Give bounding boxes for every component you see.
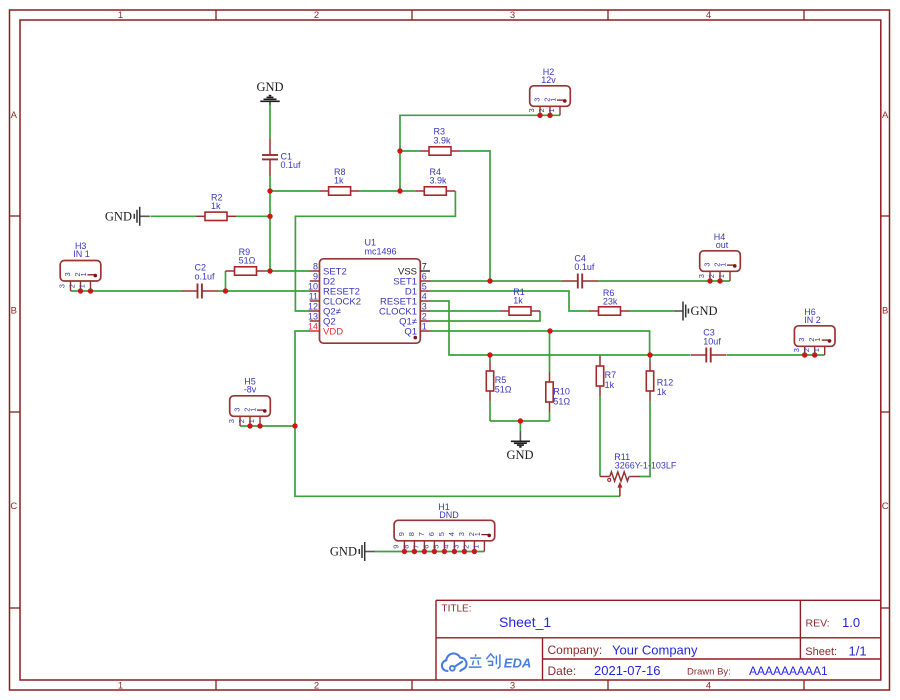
svg-text:REV:: REV:	[806, 617, 830, 629]
node H5p1	[257, 423, 262, 428]
wire	[236, 215, 270, 217]
svg-text:51Ω: 51Ω	[495, 385, 512, 395]
ground	[105, 207, 150, 226]
ground (earth, top)	[260, 96, 279, 105]
svg-text:C: C	[10, 501, 17, 512]
svg-text:1: 1	[118, 10, 123, 21]
svg-text:out: out	[716, 240, 729, 250]
svg-text:1: 1	[247, 419, 256, 423]
svg-text:10: 10	[308, 281, 318, 291]
node R10/Q1	[547, 328, 552, 333]
node H2p3	[537, 113, 542, 118]
node H4p3	[707, 278, 712, 283]
svg-text:-8v: -8v	[244, 384, 257, 394]
node H1p5	[442, 549, 447, 554]
resistor R5	[486, 361, 512, 401]
svg-text:51Ω: 51Ω	[239, 256, 256, 266]
ground	[506, 441, 533, 462]
resistor R4	[415, 167, 455, 195]
svg-text:2: 2	[314, 10, 319, 21]
svg-text:2: 2	[537, 108, 546, 112]
wire	[430, 310, 500, 312]
capacitor C3	[691, 328, 727, 363]
svg-text:4: 4	[447, 532, 456, 536]
node H4p2	[717, 278, 722, 283]
node H3p1	[88, 288, 93, 293]
svg-text:Sheet:: Sheet:	[805, 646, 837, 658]
svg-text:IN 2: IN 2	[804, 315, 821, 325]
svg-text:1: 1	[78, 284, 87, 288]
wire	[640, 401, 650, 477]
svg-text:3.9k: 3.9k	[434, 135, 452, 145]
wire	[269, 176, 271, 271]
ground	[330, 542, 375, 561]
frame row letters	[10, 110, 889, 512]
wire	[430, 331, 650, 355]
ground	[675, 302, 718, 321]
node H1p9	[402, 549, 407, 554]
svg-text:12: 12	[308, 301, 318, 311]
wire	[240, 425, 295, 427]
svg-text:3: 3	[697, 274, 706, 278]
wire	[295, 191, 455, 311]
svg-text:9: 9	[313, 271, 318, 281]
svg-text:3: 3	[703, 263, 712, 267]
svg-text:3: 3	[797, 338, 806, 342]
wire	[218, 290, 311, 292]
svg-text:2: 2	[462, 545, 471, 549]
connector H2	[527, 67, 570, 116]
svg-text:2021-07-16: 2021-07-16	[594, 663, 661, 678]
wire	[649, 355, 651, 361]
svg-text:A: A	[882, 110, 889, 121]
node SET1	[487, 278, 492, 283]
svg-text:EDA: EDA	[504, 656, 531, 671]
svg-text:51Ω: 51Ω	[553, 396, 570, 406]
svg-text:R5: R5	[495, 375, 507, 385]
EasyEDA logo	[442, 653, 531, 671]
wire	[295, 331, 620, 496]
svg-text:8: 8	[407, 532, 416, 536]
wire	[360, 190, 400, 192]
wire	[489, 401, 491, 421]
svg-text:3: 3	[422, 301, 427, 311]
svg-text:9: 9	[392, 545, 401, 549]
svg-text:GND: GND	[506, 448, 533, 462]
wire	[270, 190, 320, 192]
wire	[430, 311, 540, 321]
wire	[151, 215, 197, 217]
node H6p3	[802, 352, 807, 357]
svg-text:IN 1: IN 1	[73, 249, 90, 259]
svg-text:VDD: VDD	[323, 326, 343, 337]
svg-text:Your Company: Your Company	[612, 642, 698, 657]
svg-text:1/1: 1/1	[849, 644, 867, 659]
svg-text:1: 1	[472, 545, 481, 549]
svg-text:3: 3	[457, 532, 466, 536]
node gnd	[518, 418, 523, 423]
wire	[599, 396, 601, 477]
svg-text:1: 1	[548, 98, 557, 102]
svg-text:3: 3	[527, 108, 536, 112]
svg-text:2: 2	[314, 680, 319, 691]
svg-text:1k: 1k	[513, 296, 523, 306]
node H1p6	[432, 549, 437, 554]
wire	[269, 105, 271, 139]
svg-text:GND: GND	[330, 545, 357, 559]
wire	[599, 355, 601, 356]
svg-text:1k: 1k	[334, 176, 344, 186]
wire	[430, 301, 690, 355]
svg-text:12v: 12v	[541, 75, 556, 85]
wire	[400, 115, 560, 191]
connector H4	[697, 232, 740, 281]
node H1p2	[472, 549, 477, 554]
wire	[375, 551, 485, 553]
svg-text:2: 2	[422, 311, 427, 321]
svg-text:2: 2	[802, 348, 811, 352]
wire	[489, 355, 491, 361]
svg-text:7: 7	[412, 545, 421, 549]
potentiometer R11	[600, 452, 677, 496]
node H5p2	[247, 423, 252, 428]
svg-text:GND: GND	[256, 80, 283, 94]
wire	[430, 291, 590, 311]
connector H6	[792, 307, 835, 355]
wire	[727, 354, 825, 356]
svg-text:1: 1	[717, 274, 726, 278]
capacitor C2	[182, 263, 218, 299]
svg-text:Sheet_1: Sheet_1	[499, 614, 551, 630]
svg-text:1.0: 1.0	[842, 615, 860, 630]
svg-text:13: 13	[308, 311, 318, 321]
svg-text:3: 3	[233, 408, 242, 412]
node R8/R4	[397, 188, 402, 193]
svg-text:1: 1	[812, 348, 821, 352]
svg-text:3: 3	[452, 545, 461, 549]
svg-text:3: 3	[63, 272, 72, 276]
svg-text:A: A	[11, 110, 18, 121]
svg-text:5: 5	[437, 532, 446, 536]
IC U1 mc1496	[308, 237, 430, 343]
wire	[519, 421, 521, 431]
svg-text:0.1uf: 0.1uf	[281, 160, 302, 170]
svg-text:DND: DND	[439, 510, 459, 520]
resistor R9	[226, 247, 266, 275]
svg-text:Date:: Date:	[548, 664, 577, 678]
svg-text:2: 2	[68, 284, 77, 288]
wire	[490, 420, 550, 422]
svg-text:3: 3	[510, 10, 515, 21]
svg-text:1k: 1k	[657, 387, 667, 397]
svg-text:4: 4	[706, 680, 711, 691]
wire	[460, 151, 490, 281]
wire	[549, 412, 551, 421]
svg-text:14: 14	[308, 321, 318, 331]
node H2p2	[547, 113, 552, 118]
resistor R12	[646, 361, 673, 401]
svg-text:10uf: 10uf	[703, 336, 721, 346]
wire stub	[519, 431, 521, 441]
title block texts	[442, 604, 867, 678]
svg-text:3266Y-1-103LF: 3266Y-1-103LF	[615, 460, 677, 470]
svg-text:2: 2	[237, 419, 246, 423]
svg-text:TITLE:: TITLE:	[442, 604, 472, 615]
svg-text:GND: GND	[105, 209, 132, 223]
wire	[549, 331, 551, 372]
svg-text:o.1uf: o.1uf	[195, 271, 216, 281]
svg-text:B: B	[11, 306, 17, 317]
svg-text:R12: R12	[657, 377, 674, 387]
pin 1 marker	[414, 336, 418, 340]
svg-text:5: 5	[432, 545, 441, 549]
svg-text:6: 6	[427, 532, 436, 536]
svg-text:8: 8	[402, 545, 411, 549]
node R9/SET2	[267, 268, 272, 273]
svg-text:Q1: Q1	[404, 326, 417, 337]
wire	[430, 280, 562, 282]
svg-text:Drawn By:: Drawn By:	[687, 666, 731, 677]
svg-text:Company:: Company:	[548, 643, 603, 657]
node H1p8	[412, 549, 417, 554]
connector H1	[392, 502, 495, 551]
svg-text:9: 9	[397, 532, 406, 536]
wire	[630, 310, 676, 312]
svg-text:GND: GND	[691, 304, 718, 318]
wire	[225, 271, 227, 291]
svg-text:1: 1	[118, 680, 123, 691]
capacitor C1	[262, 138, 301, 176]
resistor R10	[546, 372, 571, 412]
svg-text:C: C	[882, 501, 889, 512]
node H3p2	[78, 288, 83, 293]
connector H3	[58, 241, 101, 291]
svg-text:1: 1	[813, 338, 822, 342]
frame column numbers	[118, 10, 711, 691]
svg-text:8: 8	[313, 261, 318, 271]
resistor R8	[320, 167, 360, 195]
svg-text:1: 1	[422, 321, 427, 331]
connector H5	[227, 376, 270, 426]
node R2/C1	[267, 214, 272, 219]
wire	[71, 290, 183, 292]
resistor R7	[596, 356, 616, 396]
svg-text:mc1496: mc1496	[365, 247, 397, 257]
svg-text:1k: 1k	[211, 201, 221, 211]
svg-text:1: 1	[718, 263, 727, 267]
node H1p7	[422, 549, 427, 554]
node H6p2	[812, 352, 817, 357]
svg-text:0.1uf: 0.1uf	[574, 262, 595, 272]
svg-text:4: 4	[442, 545, 451, 549]
svg-text:AAAAAAAAA1: AAAAAAAAA1	[749, 664, 828, 678]
svg-text:3.9k: 3.9k	[430, 176, 448, 186]
svg-text:4: 4	[706, 10, 711, 21]
svg-text:7: 7	[417, 532, 426, 536]
svg-text:3: 3	[510, 680, 515, 691]
svg-text:5: 5	[422, 281, 427, 291]
svg-text:R7: R7	[605, 370, 617, 380]
node R12	[647, 352, 652, 357]
svg-text:1k: 1k	[605, 380, 615, 390]
svg-text:1: 1	[547, 108, 556, 112]
wire	[400, 150, 420, 152]
svg-text:7: 7	[422, 261, 427, 271]
node H1p4	[452, 549, 457, 554]
resistor R1	[500, 287, 540, 315]
svg-text:2: 2	[707, 274, 716, 278]
svg-text:3: 3	[533, 98, 542, 102]
resistor R2	[196, 192, 236, 220]
node VDDrail	[292, 423, 297, 428]
svg-text:3: 3	[227, 419, 236, 423]
svg-text:6: 6	[422, 271, 427, 281]
node H1p3	[462, 549, 467, 554]
svg-text:B: B	[882, 306, 888, 317]
node R5	[487, 352, 492, 357]
capacitor C4	[562, 253, 598, 288]
resistor R3	[420, 127, 460, 156]
node R3	[397, 148, 402, 153]
node C1/R8	[267, 188, 272, 193]
resistor R6	[590, 288, 630, 315]
svg-text:3: 3	[792, 348, 801, 352]
svg-text:R10: R10	[553, 387, 570, 397]
svg-text:1: 1	[248, 408, 257, 412]
svg-text:6: 6	[422, 545, 431, 549]
svg-text:1: 1	[473, 532, 482, 536]
wire	[400, 190, 415, 192]
svg-text:1: 1	[79, 272, 88, 276]
node C2/R9	[223, 288, 228, 293]
title block	[436, 600, 881, 680]
svg-text:3: 3	[58, 284, 67, 288]
svg-text:23k: 23k	[603, 297, 618, 307]
wire	[266, 270, 311, 272]
svg-text:11: 11	[309, 291, 318, 301]
wire	[598, 280, 730, 282]
svg-text:4: 4	[422, 291, 427, 301]
